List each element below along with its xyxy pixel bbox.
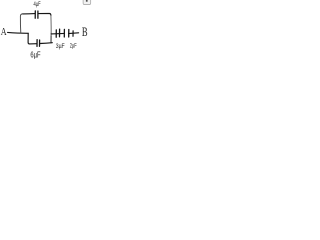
wire to node B xyxy=(69,32,79,35)
capacitor C3 3uF right plate xyxy=(59,29,61,37)
capacitor C4 2uF left plate xyxy=(63,29,65,37)
wire top horizontal left xyxy=(23,13,35,15)
extra plate stroke before B xyxy=(72,31,74,37)
wire left riser of top branch xyxy=(20,14,22,33)
wire top horizontal right xyxy=(38,14,51,16)
capacitor C1 4uF left plate xyxy=(34,11,36,18)
wire bottom horizontal right xyxy=(40,42,52,45)
capacitor C2 6uF left plate xyxy=(36,40,38,47)
capacitor C2 6uF right plate xyxy=(39,40,41,46)
svg-text:6µF: 6µF xyxy=(30,49,41,60)
wire middle right run junction to C4 gap xyxy=(51,32,64,35)
capacitor C3 3uF left plate xyxy=(55,30,57,37)
svg-text:B: B xyxy=(82,25,88,39)
wire right riser lower part xyxy=(50,36,52,43)
wire right riser junction column xyxy=(50,16,52,37)
capacitor C1 4uF right plate xyxy=(37,11,39,18)
svg-text:A: A xyxy=(1,26,7,39)
wire left drop to bottom branch xyxy=(28,33,29,44)
UI artifact box top-right corner xyxy=(83,0,91,5)
svg-text:2µF: 2µF xyxy=(70,42,77,49)
capacitor C4 2uF right plate xyxy=(68,30,70,38)
wire A to first junction xyxy=(8,31,29,34)
wire bottom horizontal left xyxy=(30,43,37,45)
svg-text:3µF: 3µF xyxy=(56,44,65,51)
svg-text:4µF: 4µF xyxy=(34,1,42,8)
